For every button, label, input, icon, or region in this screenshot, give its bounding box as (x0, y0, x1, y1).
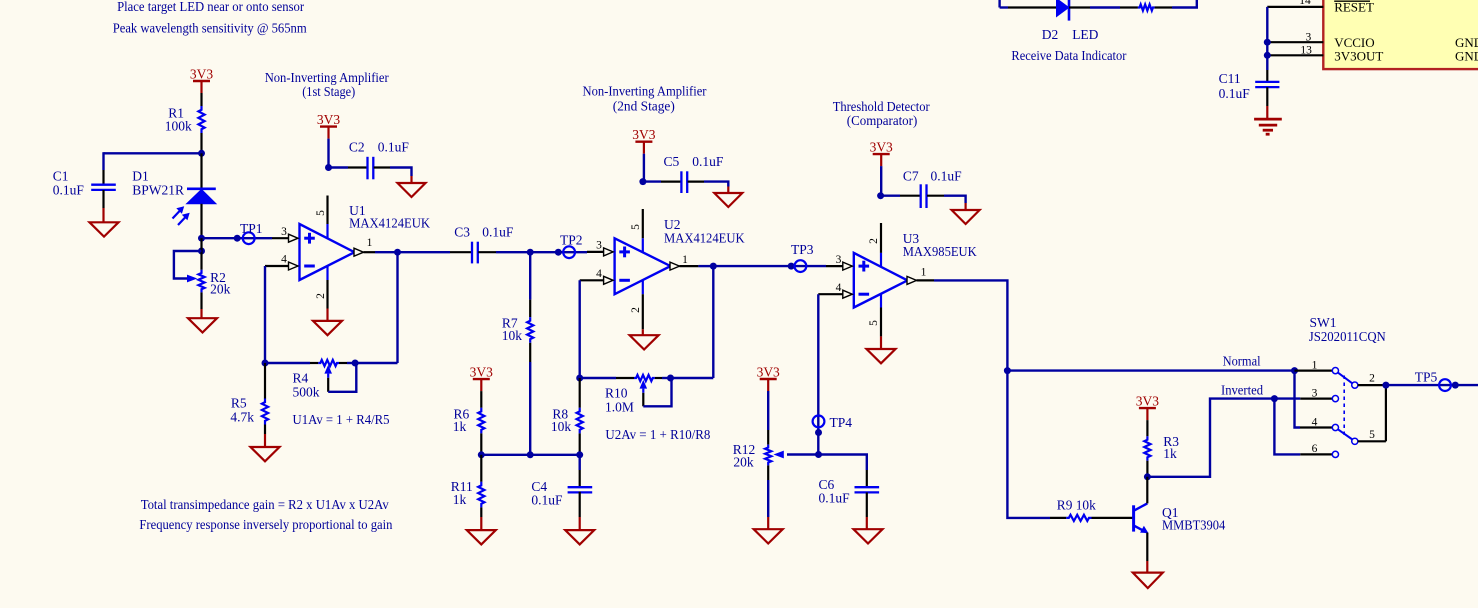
svg-text:4: 4 (596, 268, 602, 280)
capacitor C3 (398, 251, 451, 253)
svg-text:R9 10k: R9 10k (1057, 498, 1096, 513)
svg-text:3V3: 3V3 (632, 127, 655, 142)
junction rail right (R8/C4) (576, 451, 583, 458)
ground (C2) (398, 183, 426, 197)
wire down to R9 (1007, 371, 1050, 518)
capacitor C6 (866, 470, 868, 487)
resistor R8 (579, 378, 581, 408)
resistor R7 (529, 252, 531, 299)
svg-text:10k: 10k (502, 328, 523, 343)
capacitor C7 (881, 194, 900, 196)
wire into D2 net (998, 0, 1000, 8)
svg-text:C3: C3 (454, 225, 470, 240)
svg-text:Place target LED near or onto: Place target LED near or onto sensor (117, 0, 305, 14)
svg-text:R5: R5 (231, 396, 247, 411)
svg-text:3V3: 3V3 (317, 112, 340, 127)
svg-text:10k: 10k (551, 419, 572, 434)
resistor R1 (200, 93, 202, 106)
svg-text:SW1: SW1 (1310, 315, 1337, 330)
svg-text:500k: 500k (293, 384, 320, 399)
wire C7 to ground (944, 196, 966, 203)
junction U3out/Normal (1004, 367, 1011, 374)
svg-text:Threshold Detector: Threshold Detector (833, 99, 931, 114)
test point TP4 (813, 416, 825, 428)
junction pin2/TP5 (1382, 382, 1389, 389)
svg-text:MAX985EUK: MAX985EUK (903, 244, 977, 259)
svg-text:3V3: 3V3 (1136, 394, 1159, 409)
svg-text:5: 5 (1369, 429, 1375, 441)
svg-text:3: 3 (596, 240, 602, 252)
svg-text:(1st Stage): (1st Stage) (302, 84, 355, 99)
svg-text:1: 1 (682, 254, 688, 266)
light arrows into D1 (173, 206, 190, 225)
capacitor C5 (643, 180, 661, 182)
U3 pin 2 (top) (880, 223, 882, 253)
resistor R6 (480, 391, 482, 408)
svg-text:1: 1 (367, 237, 373, 249)
svg-text:0.1uF: 0.1uF (692, 154, 724, 169)
wire pin14 down (1266, 7, 1268, 55)
wire pin5 to pin2 (1385, 385, 1387, 441)
junction C3/R7 node (527, 249, 534, 256)
capacitor C11 (1266, 55, 1268, 70)
U2 pin 3 input (587, 251, 604, 253)
ground (R2) (200, 309, 202, 318)
junction R8/R10 node (576, 375, 583, 382)
svg-text:20k: 20k (210, 281, 231, 296)
svg-text:R10: R10 (605, 386, 628, 401)
R12 wiper arrow (787, 453, 819, 455)
wire Normal to pin4 (1295, 371, 1301, 428)
svg-text:U1Av = 1 + R4/R5: U1Av = 1 + R4/R5 (293, 412, 390, 427)
wire U1 pin4 to feedback node (264, 266, 266, 363)
wire R4 to U1 out (355, 362, 397, 364)
svg-text:1k: 1k (453, 419, 467, 434)
svg-text:MAX4124EUK: MAX4124EUK (349, 216, 430, 231)
svg-text:3: 3 (1306, 31, 1312, 43)
svg-text:Peak wavelength sensitivity @: Peak wavelength sensitivity @ 565nm (113, 21, 308, 36)
svg-text:4.7k: 4.7k (230, 410, 254, 425)
U1 output pin 1 (354, 248, 364, 256)
svg-text:D2: D2 (1042, 27, 1059, 42)
U2 output pin 1 (670, 262, 680, 270)
op-amp U2 (615, 238, 671, 294)
U1 pin 4 input (265, 265, 289, 267)
switch SW1 pin 3 (1300, 398, 1332, 400)
wire U2 out to TP3 (713, 265, 826, 267)
ground (Q1) (1146, 561, 1148, 573)
junction R1/C1/D1 node (198, 150, 205, 157)
svg-text:1: 1 (921, 266, 927, 278)
LED D2 (1008, 6, 1057, 8)
wire C5 to ground (704, 182, 728, 187)
switch SW1 pin 4 (1300, 426, 1332, 428)
ground (C4) (579, 517, 581, 530)
svg-text:5: 5 (315, 210, 327, 216)
svg-text:JS202011CQN: JS202011CQN (1309, 329, 1386, 344)
switch SW1 pin 1 (1295, 370, 1333, 372)
svg-text:3V3: 3V3 (757, 365, 780, 380)
svg-text:MMBT3904: MMBT3904 (1162, 518, 1226, 533)
U1 pin 3 input (272, 237, 289, 239)
potentiometer R4 (318, 360, 339, 366)
IC block (FT232 style) partial (1323, 0, 1478, 69)
svg-text:Receive Data Indicator: Receive Data Indicator (1011, 48, 1127, 63)
svg-text:0.1uF: 0.1uF (482, 225, 514, 240)
ground (R5) (264, 434, 266, 447)
svg-text:(2nd Stage): (2nd Stage) (613, 98, 675, 113)
svg-text:R4: R4 (293, 371, 309, 386)
svg-text:2: 2 (868, 238, 880, 244)
resistor R3 (1146, 420, 1148, 436)
test point TP3 (788, 263, 795, 270)
junction 3V3/C2/U1pin5 (325, 164, 332, 171)
transistor Q1 (1132, 505, 1135, 531)
wire feedback node to R4 (265, 362, 310, 364)
junction U1 out (394, 249, 401, 256)
svg-text:TP1: TP1 (240, 221, 263, 236)
U3 pin 4 input (818, 293, 843, 295)
ground (C6) (866, 517, 868, 529)
wire U2 out down to R10 (712, 266, 714, 378)
svg-text:3V3: 3V3 (470, 365, 493, 380)
svg-text:1k: 1k (1163, 446, 1177, 461)
svg-text:20k: 20k (733, 455, 754, 470)
wire U2 pin4 down (579, 280, 581, 378)
switch lever 1-2 (1338, 372, 1353, 383)
R2 wiper wire and arrow (174, 251, 202, 279)
junction R10 right (667, 375, 674, 382)
junction Inverted/pin6 (1271, 395, 1278, 402)
svg-text:BPW21R: BPW21R (132, 182, 184, 197)
resistor R5 (264, 363, 266, 399)
svg-text:TP3: TP3 (791, 242, 814, 257)
wire U3 out to switch net (934, 280, 1007, 370)
wire to C6 (819, 455, 867, 471)
potentiometer R10 (580, 377, 616, 379)
IC pin 3 VCCIO (1267, 41, 1323, 43)
svg-text:1: 1 (1312, 359, 1318, 371)
rheostat R2 (200, 238, 202, 270)
svg-text:3: 3 (1312, 387, 1318, 399)
junction U2 out (710, 263, 717, 270)
svg-text:6: 6 (1312, 443, 1318, 455)
svg-text:0.1uF: 0.1uF (378, 139, 410, 154)
earth ground (C11) (1266, 106, 1268, 119)
svg-text:(Comparator): (Comparator) (847, 113, 918, 128)
test point TP2 (530, 251, 587, 253)
svg-text:RESET: RESET (1334, 0, 1374, 15)
junction 3V3/C5/U2pin5 (639, 178, 646, 185)
wire D2 net right (1172, 0, 1197, 8)
svg-text:2: 2 (1369, 372, 1375, 384)
U2 pin 4 input (580, 279, 604, 281)
svg-text:2: 2 (315, 293, 327, 299)
test point TP1 (202, 237, 273, 239)
U3 output pin 1 (907, 276, 917, 284)
switch SW1 pin 2 (1352, 382, 1358, 388)
wire C2 to ground (390, 168, 412, 177)
junction feedback node (262, 360, 269, 367)
svg-text:0.1uF: 0.1uF (53, 182, 85, 197)
svg-text:0.1uF: 0.1uF (819, 491, 851, 506)
svg-text:C5: C5 (664, 154, 680, 169)
svg-text:TP5: TP5 (1415, 370, 1438, 385)
wire Normal net (1007, 369, 1294, 371)
Q1 collector pin (1146, 477, 1148, 504)
svg-text:C7: C7 (903, 169, 919, 184)
svg-text:Total transimpedance gain = R2: Total transimpedance gain = R2 x U1Av x … (141, 497, 389, 512)
resistor R9 (1050, 517, 1066, 519)
junction 3V3/C7/U3pin2 (877, 192, 884, 199)
op-amp U3 comparator (854, 253, 908, 308)
svg-text:LED: LED (1072, 27, 1098, 42)
U3 pin 3 input (826, 265, 843, 267)
switch SW1 pin 6 (1300, 453, 1332, 455)
junction D1/TP1 node (198, 235, 205, 242)
svg-text:MAX4124EUK: MAX4124EUK (664, 231, 745, 246)
wire bottom rail (481, 454, 579, 456)
junction Normal/pin1 (1291, 367, 1298, 374)
test point TP5 (1439, 379, 1451, 391)
svg-text:C2: C2 (349, 139, 365, 154)
U3 pin 5 (bottom) (880, 294, 882, 308)
wire to C1 (104, 152, 202, 154)
svg-text:Non-Inverting Amplifier: Non-Inverting Amplifier (583, 84, 708, 99)
svg-text:0.1uF: 0.1uF (531, 493, 563, 508)
wire pin2 to TP5 (1386, 384, 1478, 386)
svg-text:C11: C11 (1219, 71, 1241, 86)
svg-text:Normal: Normal (1223, 353, 1261, 368)
junction pin3 (1264, 39, 1271, 46)
resistor (D2 series) (1090, 6, 1120, 8)
svg-text:3V3OUT: 3V3OUT (1334, 48, 1383, 63)
capacitor C2 (329, 166, 349, 168)
op-amp U1 (300, 224, 355, 280)
ground (U3) (880, 336, 882, 349)
svg-text:GND: GND (1455, 48, 1478, 63)
svg-text:2: 2 (630, 307, 642, 313)
junction R4 right (352, 360, 359, 367)
junction TP4/R12/C6 (815, 451, 822, 458)
svg-text:Non-Inverting Amplifier: Non-Inverting Amplifier (265, 70, 390, 85)
junction R3/collector (1144, 473, 1151, 480)
ground (C7) (952, 210, 980, 224)
svg-text:13: 13 (1300, 45, 1312, 57)
ground (R12) (767, 517, 769, 529)
wire U1 feedback down (396, 252, 398, 363)
svg-text:5: 5 (630, 224, 642, 230)
svg-text:4: 4 (836, 282, 842, 294)
rheostat R12 (767, 391, 769, 430)
IC pin 14 RESET (1267, 6, 1323, 8)
svg-text:3: 3 (836, 254, 842, 266)
ground (R11) (480, 517, 482, 530)
svg-text:100k: 100k (165, 119, 192, 134)
svg-text:Inverted: Inverted (1221, 382, 1263, 397)
capacitor C4 (579, 455, 581, 470)
U2 pin 2 (bottom) (642, 280, 644, 294)
ground (C5) (714, 193, 742, 207)
wire R10 to U2 out (671, 377, 714, 379)
Q1 emitter pin (1146, 533, 1148, 561)
svg-text:3V3: 3V3 (190, 67, 213, 82)
svg-text:4: 4 (281, 254, 287, 266)
svg-text:U2Av = 1 + R10/R8: U2Av = 1 + R10/R8 (605, 427, 710, 442)
svg-text:TP2: TP2 (560, 233, 583, 248)
svg-text:3: 3 (281, 226, 287, 238)
junction rail mid (R7) (527, 451, 534, 458)
capacitor C1 (102, 170, 104, 185)
U1 pin 2 (bottom) (326, 266, 328, 280)
svg-text:1.0M: 1.0M (605, 399, 634, 414)
junction pin13 (1264, 52, 1271, 59)
ground (C1) (102, 208, 104, 222)
junction R2 wiper node (198, 248, 205, 255)
resistor R11 (480, 455, 482, 482)
ground (U2) (642, 329, 644, 335)
ground (U1) (326, 309, 328, 321)
switch lever 4-5 (1338, 429, 1353, 439)
IC pin 13 3V3OUT (1267, 54, 1323, 56)
svg-text:Frequency response inversely p: Frequency response inversely proportiona… (139, 517, 392, 532)
wire Inverted net (1147, 399, 1274, 477)
switch SW1 pin 5 (1352, 438, 1358, 444)
svg-text:5: 5 (868, 320, 880, 326)
svg-text:0.1uF: 0.1uF (931, 169, 963, 184)
svg-text:0.1uF: 0.1uF (1219, 86, 1251, 101)
svg-text:14: 14 (1299, 0, 1311, 7)
junction rail left (478, 451, 485, 458)
wire U3 pin4 to TP4 (817, 294, 819, 454)
photodiode D1 (200, 153, 202, 189)
svg-text:4: 4 (1312, 416, 1318, 428)
U2 pin 5 (top) (642, 209, 644, 238)
svg-text:1k: 1k (453, 492, 467, 507)
U1 pin 5 (top) (326, 196, 328, 225)
svg-text:3V3: 3V3 (870, 140, 893, 155)
svg-text:TP4: TP4 (830, 415, 853, 430)
switch gang dashed link (1343, 376, 1345, 439)
